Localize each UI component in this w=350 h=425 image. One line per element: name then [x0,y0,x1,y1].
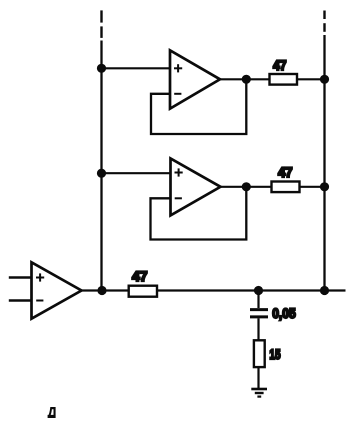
resistor R1 47 [270,74,298,85]
svg-text:47: 47 [273,57,287,73]
node: junction left bus / U3 output [97,286,106,295]
node: junction right bus / R2 [320,182,329,191]
wire: R2 to right bus [300,186,325,188]
right bus wire [323,35,325,291]
wire: R1 to right bus [297,78,325,80]
left bus wire [100,41,102,291]
wire: U3 non-inverting input stub [9,276,32,278]
ground [251,389,267,397]
left bus dashed continuation [100,10,102,38]
node: U1 output / feedback tap [242,75,251,84]
node: U2 output / feedback tap [242,182,251,191]
wire: bottom output row [81,289,346,291]
node: junction bottom row / right bus [320,286,329,295]
svg-text:47: 47 [278,164,293,180]
svg-text:15: 15 [269,346,280,362]
resistor R2 47 [272,182,300,193]
capacitor C1 [250,310,268,317]
resistor R4 15 [254,340,265,367]
right bus dashed continuation [323,11,325,32]
wire: left bus to U2 + input [102,172,171,174]
wire: U1 output [220,78,270,80]
wire: U2 feedback loop [151,187,247,240]
label figure Д [48,407,56,418]
wire: U1 feedback loop [151,79,246,134]
wire: U3 inverting input stub [9,299,32,301]
op-amp U3 [32,262,82,318]
wire: C1 to R4 [257,318,259,340]
op-amp U1 [170,50,220,108]
op-amp U2 [171,158,221,215]
resistor R3 47 [129,286,157,297]
node: junction left bus / U2 input [97,169,106,178]
svg-text:0,05: 0,05 [272,305,296,321]
wire: U2 output [221,186,272,188]
node: junction bottom row / C1 branch [254,286,263,295]
svg-text:47: 47 [132,268,148,284]
wire: R4 to ground [257,367,259,388]
node: junction right bus / R1 [320,75,329,84]
node: junction left bus / U1 input [97,64,106,73]
wire: left bus to U1 + input [102,67,171,69]
wire: node to C1 [257,291,259,309]
